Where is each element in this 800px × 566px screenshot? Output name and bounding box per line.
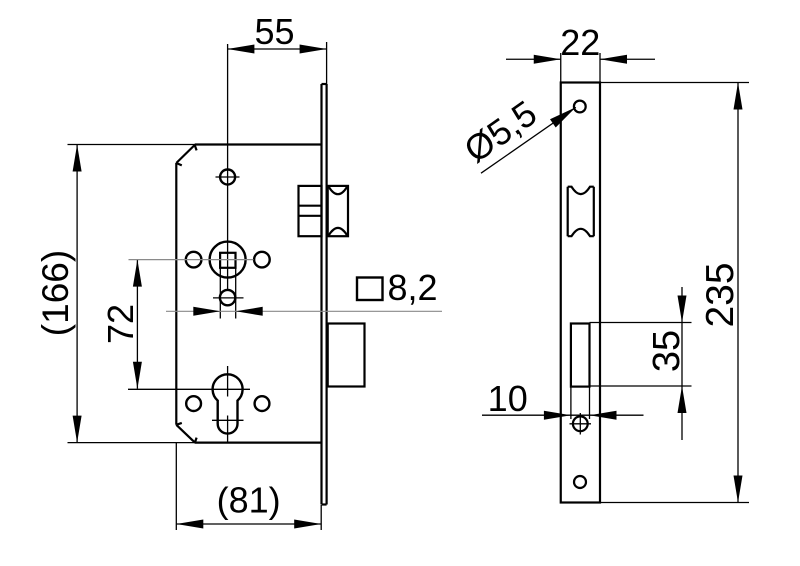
- svg-text:8,2: 8,2: [388, 267, 438, 308]
- svg-text:35: 35: [646, 330, 688, 372]
- svg-text:22: 22: [560, 22, 600, 63]
- svg-text:235: 235: [699, 262, 742, 327]
- svg-text:10: 10: [488, 378, 528, 419]
- svg-text:(81): (81): [217, 480, 281, 521]
- svg-text:72: 72: [100, 304, 141, 344]
- svg-text:55: 55: [254, 11, 294, 52]
- svg-text:(166): (166): [35, 250, 76, 336]
